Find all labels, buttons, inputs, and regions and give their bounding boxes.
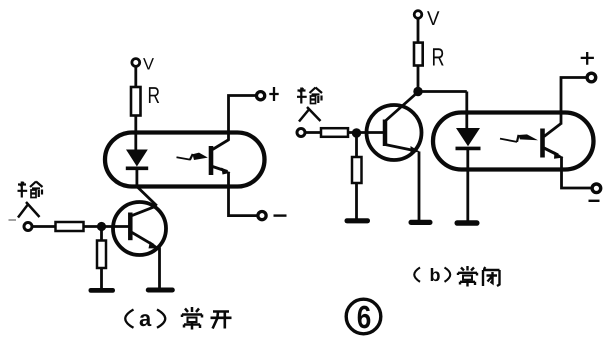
wire V to R right [417,19,420,44]
optocoupler U2 package [433,113,594,170]
transistor Q1 [113,202,166,255]
terminal + right [587,73,596,82]
figure number 6 [346,299,381,334]
svg-text:V: V [427,8,440,30]
wire input to Q1 base [32,225,130,228]
resistor R left [131,87,141,116]
ground bias resistor right [345,218,371,223]
LED D2 [456,128,481,222]
LED D1 [126,150,148,188]
svg-text:R: R [432,44,445,72]
wire junction to Q2 collector [386,92,418,121]
label + left [269,87,278,101]
phototransistor U2 [543,124,564,159]
wire U1 emitter to - terminal [229,172,259,216]
terminal V right [414,11,422,19]
mark left of input [9,219,17,221]
phototransistor U1 [211,140,231,176]
light arrow U2 [500,134,538,142]
label shu-ru input right [297,88,322,122]
node collector junction right [413,87,422,96]
wire D1 cathode to Q1 collector [137,187,157,206]
resistor R right [414,43,423,66]
resistor R4 bias right [352,157,362,183]
wire R to LED anode left [134,116,137,151]
node base junction right [352,128,361,137]
resistor R1 input series left [56,222,84,231]
terminal input left [24,223,32,231]
svg-text:R: R [148,82,161,108]
svg-text:b: b [430,265,441,285]
wire Q1 emitter to ground [158,248,161,290]
ground Q1 emitter [146,288,175,293]
wire V to R left [134,67,137,87]
optocoupler U1 package [105,133,265,187]
label - right [589,200,600,202]
wire junction to D2 anode [418,92,467,129]
wire input to Q2 base [305,131,385,134]
caption b chang-bi [414,265,499,287]
svg-text:a: a [139,306,152,331]
wire R to collector node right [417,66,420,92]
ground D2 cathode [455,220,480,225]
label - left [274,214,287,216]
wire Q2 emitter to ground [418,152,421,223]
label + right [581,52,594,65]
wire U1 collector to + terminal [229,96,257,141]
caption a chang-kai [125,306,231,331]
terminal - left [258,212,266,220]
ground Q2 emitter [409,220,433,225]
wire U2 emitter to - terminal [562,157,593,189]
wire junction to bias resistor left [100,227,103,290]
transistor Q2 [367,105,422,160]
wire U2 collector to + terminal [561,78,587,125]
terminal input right [297,129,305,137]
resistor R2 bias left [97,241,106,269]
resistor R3 input series right [321,128,348,137]
label shu-ru input left [18,182,43,218]
svg-text:V: V [143,56,154,74]
light arrow U1 [177,153,208,160]
terminal - right [592,184,601,193]
svg-text:6: 6 [357,299,372,335]
ground bias resistor left [89,288,116,293]
terminal + left [257,92,265,100]
wire junction to bias resistor right [355,133,358,220]
terminal V left [132,59,140,67]
node base junction left [97,222,106,231]
